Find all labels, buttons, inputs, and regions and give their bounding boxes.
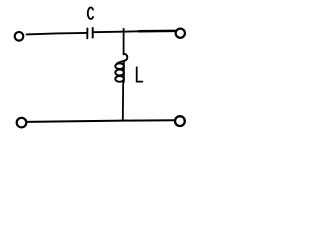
terminal top-right [176,29,185,38]
wire bottom [27,120,175,122]
label C [88,7,93,19]
inductor L [115,54,127,83]
capacitor C [87,28,92,38]
terminal bottom-left [17,118,27,128]
wire top-left segment [27,33,88,35]
label L [137,67,143,81]
wire top-right thick segment [139,30,175,33]
wire shunt vertical upper [123,29,125,55]
terminal bottom-right [175,116,185,126]
terminal top-left [15,32,24,41]
wire top-right segment [94,30,140,33]
wire shunt vertical lower [122,81,124,121]
